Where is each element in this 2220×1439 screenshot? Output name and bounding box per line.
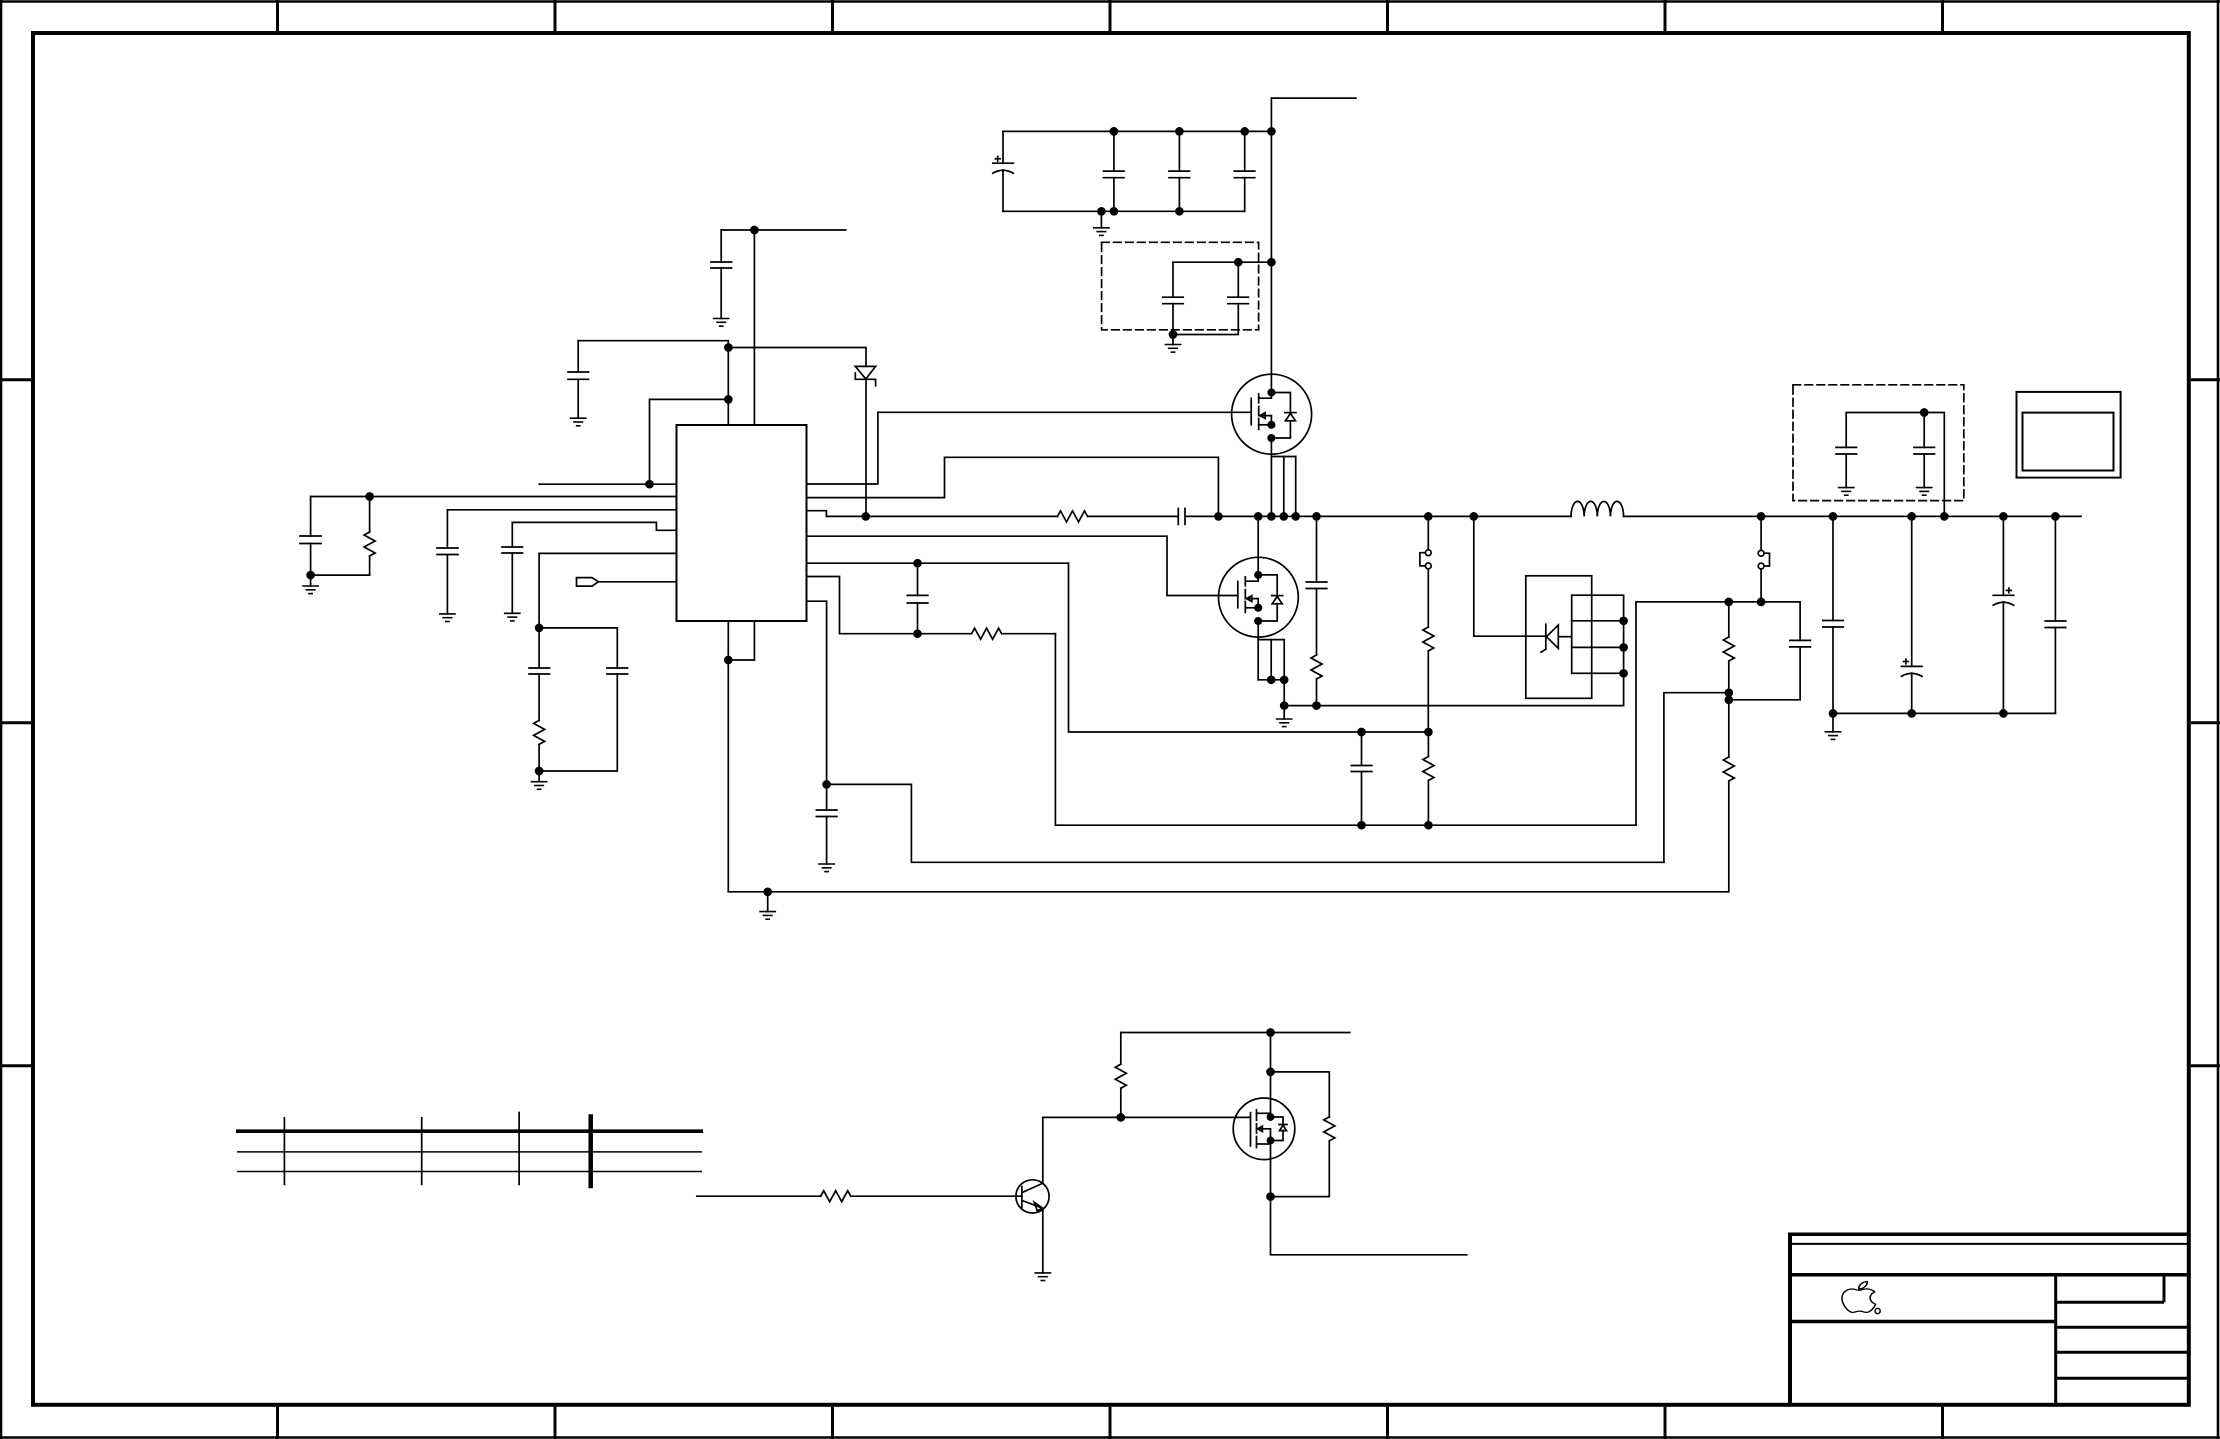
ground (1165, 345, 1180, 353)
junction (914, 560, 1432, 736)
junction (1268, 676, 1288, 709)
dashed box EMI filter 2 (1793, 385, 1964, 501)
wire left pin2 (311, 496, 677, 498)
IC U1 (677, 425, 807, 621)
junction (307, 572, 314, 579)
junction (1620, 617, 1627, 677)
capacitor C15 electrolytic (1902, 516, 1923, 713)
ground (571, 418, 586, 426)
resistor R8 (1723, 700, 1734, 892)
box T1 primary (1526, 576, 1592, 699)
wire secondary rail (1636, 601, 1800, 603)
resistor R2 (534, 720, 545, 771)
diode D2 (1541, 624, 1572, 652)
resistor R10 (821, 1191, 851, 1202)
dashed box EMI filter 1 (1102, 242, 1259, 329)
battery stack (238, 1113, 701, 1187)
capacitor C16 electrolytic (1993, 516, 2014, 713)
MOSFET Q1 (1232, 374, 1312, 456)
capacitor C12 (816, 784, 837, 864)
wire net U (728, 621, 1728, 892)
junction (914, 630, 921, 637)
ground (767, 892, 769, 912)
wire sense net (1284, 673, 1623, 705)
capacitor C18 (1836, 413, 1857, 488)
resistor R11 (1115, 1033, 1126, 1118)
wire Q1 source bundle (1271, 457, 1295, 517)
capacitor C25 (1173, 262, 1248, 334)
wire (311, 574, 370, 576)
wire diode feed (1474, 516, 1546, 636)
wire gate Q1 (807, 412, 1252, 484)
junction (536, 768, 543, 775)
capacitor C7 (539, 628, 627, 771)
ground (440, 614, 455, 622)
wire pin jog (650, 399, 729, 484)
wire VCC stub (721, 230, 846, 425)
wire stub pin (539, 483, 676, 485)
ground (1283, 706, 1285, 719)
junction (1725, 598, 1764, 605)
box T1 secondary (1572, 595, 1624, 673)
resistor R7 (1723, 602, 1734, 700)
wire to zener (728, 348, 866, 367)
wire ic pin7 (807, 601, 827, 784)
capacitor C3 (300, 497, 321, 587)
resistor R1 (364, 497, 375, 576)
resistor R4 (1311, 655, 1322, 706)
junction (366, 493, 373, 500)
transistor Q3 (1016, 1180, 1049, 1213)
junction (1170, 331, 1177, 338)
capacitor C8 (1178, 508, 1185, 524)
junction (1117, 1114, 1124, 1121)
capacitor C20 electrolytic (993, 131, 1014, 211)
wire Q3 collector (1043, 1117, 1121, 1183)
wire cap bank bottom (1003, 210, 1245, 212)
ground (1917, 488, 1932, 496)
wire Q4 source out (1271, 1197, 1467, 1255)
junction (1110, 128, 1275, 135)
junction (1358, 822, 1432, 829)
capacitor C19 (1914, 413, 1935, 488)
capacitor C23 (1234, 131, 1255, 211)
junction (1921, 409, 1928, 416)
wire net S (807, 563, 1429, 732)
ground (1035, 1273, 1050, 1281)
wire Q3 base net (697, 1195, 1022, 1197)
junction (1235, 259, 1275, 266)
wire (1846, 413, 1944, 517)
resistor R3 (1058, 511, 1088, 522)
junction (646, 481, 653, 488)
load box (2017, 392, 2121, 478)
ground (538, 771, 540, 782)
ground (1832, 713, 1834, 731)
ground (714, 319, 729, 327)
capacitor C4 (437, 510, 677, 614)
capacitor C10 (907, 563, 928, 634)
capacitor C24 (1163, 262, 1184, 344)
wire boot pin (807, 457, 1219, 516)
junction (1267, 1029, 1274, 1075)
wire Q2 gate net (807, 536, 1238, 595)
jumper J1 (1758, 516, 1769, 602)
port P1 (577, 578, 677, 587)
junction (1830, 710, 2007, 717)
junction (536, 624, 543, 631)
wire net T (827, 693, 1729, 863)
junction (725, 344, 732, 351)
wire SW rail (807, 511, 2082, 517)
capacitor C9 (1306, 516, 1327, 655)
wire left pin5 (539, 553, 676, 628)
title block (1788, 1233, 2189, 1405)
capacitor C2 (568, 341, 589, 419)
MOSFET Q4 (1233, 1033, 1295, 1197)
wire output ground rail (1833, 712, 2055, 714)
wire Q3 emitter (1042, 1208, 1044, 1273)
capacitor C13 (1729, 602, 1811, 700)
wire VDD top (578, 341, 728, 425)
wire Q2 source bundle (1258, 640, 1284, 706)
wire pullup net (1121, 1032, 1350, 1034)
capacitor C21 (1104, 131, 1125, 211)
ground (819, 864, 834, 872)
junction (725, 396, 732, 403)
inductor L1 (1571, 501, 1624, 516)
wire (1173, 261, 1271, 263)
capacitor C22 (1169, 131, 1190, 211)
ground (505, 613, 520, 621)
capacitor C14 (1823, 516, 1844, 713)
resistor R6 (1423, 732, 1434, 825)
wire VIN vertical (1271, 98, 1356, 392)
MOSFET Q2 (1219, 516, 1299, 639)
ground (1100, 211, 1102, 228)
junction rail dots (862, 513, 2059, 520)
capacitor C1 (711, 230, 732, 319)
wire cap bank top (1003, 130, 1271, 132)
resistor R12 (1271, 1072, 1335, 1197)
junction (823, 781, 830, 788)
capacitor C6 (529, 628, 550, 721)
capacitor C17 (2045, 516, 2066, 713)
ground (303, 586, 318, 594)
junction (725, 657, 771, 896)
resistor R5 (972, 628, 1002, 639)
resistor R9 (1423, 627, 1434, 732)
wire Q4 gate (1121, 1116, 1251, 1118)
zener diode D1 (855, 366, 875, 516)
junction (1725, 689, 1732, 703)
Apple logo (1842, 1282, 1880, 1314)
jumper J2 (1420, 516, 1431, 627)
junction (1313, 702, 1320, 709)
wire net R upper (807, 577, 1637, 826)
junction (751, 227, 758, 234)
capacitor C11 (1351, 732, 1372, 825)
junction (1267, 1193, 1274, 1200)
ground (1839, 488, 1854, 496)
junction (1098, 208, 1183, 215)
capacitor C5 (502, 522, 677, 613)
